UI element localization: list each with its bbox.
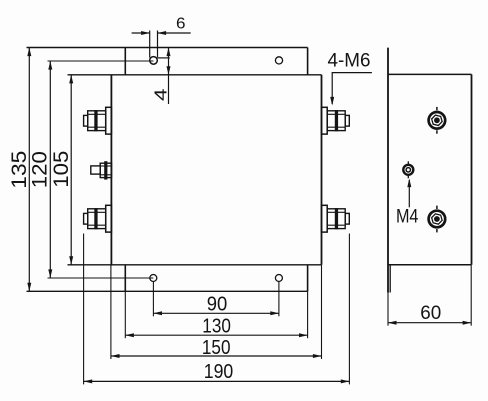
- svg-text:4-M6: 4-M6: [328, 51, 371, 72]
- svg-text:130: 130: [202, 316, 231, 338]
- svg-text:190: 190: [204, 361, 234, 383]
- svg-text:120: 120: [29, 151, 52, 188]
- svg-text:60: 60: [420, 302, 441, 324]
- svg-text:150: 150: [202, 337, 231, 359]
- svg-text:M4: M4: [396, 207, 419, 228]
- svg-text:90: 90: [207, 294, 228, 316]
- svg-text:4: 4: [150, 88, 170, 101]
- svg-text:6: 6: [176, 16, 186, 33]
- svg-text:105: 105: [50, 151, 73, 188]
